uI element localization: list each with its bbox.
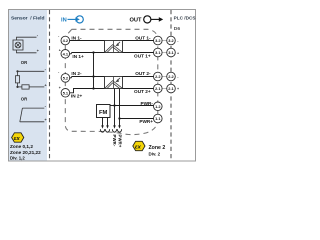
terminal 2.1 bbox=[154, 84, 163, 93]
junction node IN2- bbox=[92, 75, 94, 77]
svg-text:3.2: 3.2 bbox=[168, 38, 174, 43]
svg-text:3.1: 3.1 bbox=[155, 50, 161, 55]
namur bottom rail bbox=[18, 86, 22, 88]
wire IN2- : terminal 5.2 to isolator U2 (with jog) bbox=[70, 77, 105, 78]
isolator U1 (channel 1) bbox=[105, 41, 123, 53]
plug terminal 3.2 bbox=[167, 36, 176, 45]
plug terminal 2.2 bbox=[167, 72, 176, 81]
wire OUT1- : U1 to terminal 3.2 bbox=[123, 40, 154, 42]
svg-text:Zone 0,1,2: Zone 0,1,2 bbox=[10, 144, 33, 149]
field column separator (dashed) bbox=[49, 10, 51, 161]
svg-text:Zone 2: Zone 2 bbox=[149, 145, 166, 151]
svg-text:2.2: 2.2 bbox=[168, 74, 174, 79]
svg-text:IN: IN bbox=[61, 17, 67, 23]
plug terminal 3.1 bbox=[167, 48, 176, 57]
wire OUT2- : U2 to terminal 2.2 bbox=[123, 76, 154, 78]
plug link wires bbox=[162, 41, 167, 89]
terminal 4.1 bbox=[61, 50, 70, 59]
terminal 1.1 bbox=[154, 114, 163, 123]
svg-text:Zone 20,21,22: Zone 20,21,22 bbox=[10, 150, 41, 155]
wire OUT2+ : U2 to terminal 2.1 bbox=[123, 88, 154, 90]
svg-text:1.2: 1.2 bbox=[155, 104, 161, 109]
test sockets (cups) bbox=[100, 129, 121, 132]
wire IN1- : terminal 4.2 to isolator U1 bbox=[70, 40, 105, 42]
svg-text:D6: D6 bbox=[174, 26, 181, 32]
svg-text:IN 1-: IN 1- bbox=[71, 35, 82, 40]
wire transmitter minus lead bbox=[17, 37, 37, 40]
terminal 3.1 bbox=[154, 48, 163, 57]
svg-text:OR: OR bbox=[21, 97, 28, 102]
terminal 1.2 bbox=[154, 102, 163, 111]
namur series resistor bbox=[22, 85, 29, 89]
sensor/field column background bbox=[9, 10, 47, 161]
wire FM to PWR- rail bbox=[110, 105, 115, 107]
svg-text:2.2: 2.2 bbox=[155, 74, 161, 79]
svg-text:5.2: 5.2 bbox=[63, 75, 69, 80]
svg-text:εx: εx bbox=[14, 136, 21, 142]
junction node PWR+ bbox=[118, 117, 120, 119]
svg-text:+: + bbox=[177, 87, 179, 91]
isolator U2 (channel 2) bbox=[105, 77, 123, 89]
svg-text:PLC /DCS: PLC /DCS bbox=[174, 16, 196, 21]
wire OUT1+ : U1 to terminal 3.1 bbox=[123, 52, 154, 54]
svg-text:2.1: 2.1 bbox=[155, 86, 161, 91]
power rail lines from U2 bbox=[114, 89, 116, 127]
device boundary (dashed rounded) bbox=[65, 29, 158, 134]
sensor: 2-wire transmitter (box with circle-X) bbox=[13, 40, 23, 50]
header OUT symbol (black) bbox=[130, 16, 164, 24]
svg-text:OUT 2+: OUT 2+ bbox=[134, 89, 151, 94]
svg-text:4.1: 4.1 bbox=[63, 51, 69, 56]
namur node dot bottom bbox=[16, 86, 18, 88]
terminal 3.2 bbox=[154, 36, 163, 45]
common bus wire x=93.2 bbox=[93, 53, 95, 89]
wire PWR- to terminal 1.2 bbox=[115, 105, 154, 107]
junction node IN1+ bbox=[92, 51, 94, 53]
terminal 2.2 bbox=[154, 72, 163, 81]
terminal 4.2 bbox=[61, 36, 70, 45]
svg-text:3.2: 3.2 bbox=[155, 38, 161, 43]
terminal 5.1 bbox=[61, 89, 70, 98]
header IN symbol (blue) bbox=[61, 16, 83, 24]
svg-text:OUT 1-: OUT 1- bbox=[135, 35, 151, 40]
namur parallel resistor bbox=[17, 71, 19, 75]
svg-text:5.1: 5.1 bbox=[63, 90, 69, 95]
svg-text:OR: OR bbox=[21, 60, 28, 65]
svg-text:+: + bbox=[59, 86, 61, 90]
FM test lines bbox=[102, 118, 104, 127]
svg-text:εx: εx bbox=[135, 144, 142, 150]
svg-text:+: + bbox=[177, 51, 179, 55]
namur top rail bbox=[18, 70, 45, 72]
svg-text:FM: FM bbox=[99, 110, 108, 116]
svg-text:Sensor / Field: Sensor / Field bbox=[11, 15, 44, 21]
svg-text:1.1: 1.1 bbox=[155, 116, 161, 121]
svg-text:IN 1+: IN 1+ bbox=[72, 54, 84, 59]
terminal 5.2 bbox=[61, 74, 70, 83]
wire PWR+ to terminal 1.1 bbox=[120, 118, 154, 120]
svg-text:4.2: 4.2 bbox=[63, 38, 69, 43]
outer frame bbox=[9, 10, 196, 162]
svg-text:PWR-: PWR- bbox=[112, 135, 117, 147]
junction node IN2+ bbox=[92, 87, 94, 89]
PLC column separator (dashed) bbox=[170, 10, 172, 161]
FM block bbox=[97, 105, 111, 118]
svg-text:IN 2+: IN 2+ bbox=[71, 93, 83, 98]
svg-text:OUT 2-: OUT 2- bbox=[135, 71, 151, 76]
plug terminal 2.1 bbox=[167, 84, 176, 93]
junction node PWR- bbox=[113, 104, 115, 106]
svg-text:2.1: 2.1 bbox=[168, 86, 174, 91]
test socket arrows bbox=[101, 125, 121, 128]
wire IN2+ : terminal 5.1 to isolator U2 (with elbow) bbox=[70, 89, 105, 93]
Ex hexagon field side bbox=[12, 133, 24, 142]
svg-text:+: + bbox=[59, 48, 61, 52]
wire IN1+ : terminal 4.1 to isolator U1 (with jog) bbox=[70, 53, 105, 54]
svg-text:OUT: OUT bbox=[130, 17, 143, 23]
svg-text:IN 2-: IN 2- bbox=[71, 71, 82, 76]
svg-text:Div. 1,2: Div. 1,2 bbox=[10, 155, 25, 160]
sensor: NAMUR equivalent (parallel R, series R) bbox=[16, 71, 45, 89]
svg-text:PWR-: PWR- bbox=[141, 101, 154, 106]
Ex hexagon zone 2 bbox=[133, 141, 145, 150]
svg-text:PWR+: PWR+ bbox=[117, 135, 122, 148]
wire transmitter plus lead bbox=[17, 50, 37, 53]
sensor: switch contact bbox=[20, 108, 45, 122]
namur node dot top bbox=[16, 70, 18, 72]
svg-text:Div. 2: Div. 2 bbox=[149, 151, 161, 156]
svg-text:OUT 1+: OUT 1+ bbox=[134, 53, 151, 58]
svg-text:3.1: 3.1 bbox=[168, 50, 174, 55]
svg-text:PWR+: PWR+ bbox=[139, 119, 153, 124]
